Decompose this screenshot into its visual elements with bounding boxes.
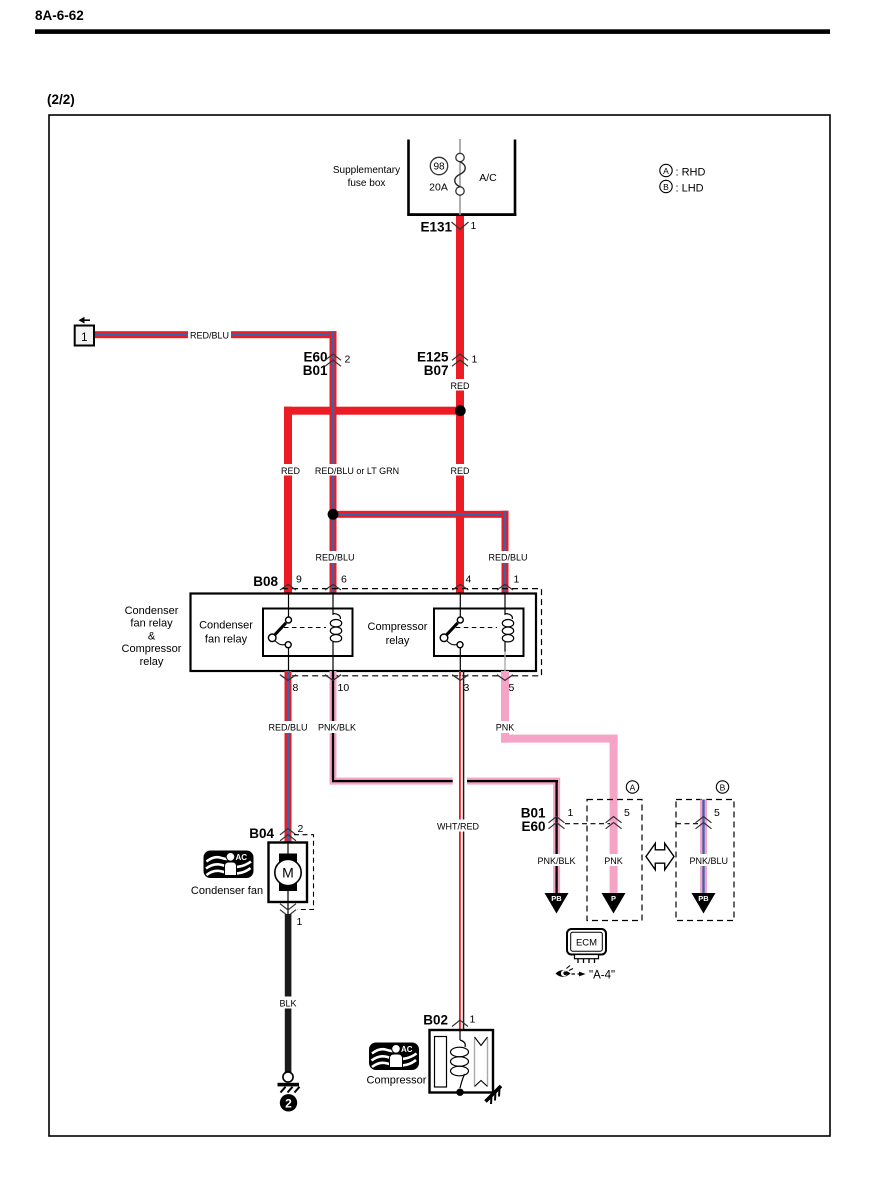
svg-text:B04: B04	[249, 826, 274, 841]
label Compressor	[367, 1075, 427, 1087]
label PNK/BLK (pin 10)	[316, 721, 359, 733]
B04 dashed outline	[294, 835, 314, 910]
connector B01/E60 pin 1	[521, 806, 574, 835]
label PNK/BLK (below B01/E60)	[535, 854, 578, 866]
condenser fan motor M	[269, 843, 308, 903]
svg-text:B: B	[720, 783, 726, 793]
label RED (pin 9 drop)	[278, 464, 300, 476]
junction node 2 (red/blu bus)	[328, 509, 339, 520]
svg-text:1: 1	[472, 354, 478, 366]
svg-text:RED/BLU: RED/BLU	[268, 723, 307, 733]
wire RED/BLU vertical E60 to junction 2	[330, 331, 337, 518]
wire PNK/BLK B08 pin 10 to B01/E60	[330, 671, 561, 893]
wire RED/BLU junction 2 to B08 pin 6	[330, 514, 337, 594]
wire RED/BLU B08 pin 8 to B04	[285, 671, 292, 843]
connector B04 pin 1	[280, 902, 303, 928]
svg-text:Condenser: Condenser	[199, 620, 253, 632]
fuse 98 20A A/C	[429, 153, 497, 195]
ground id circle 2	[280, 1094, 297, 1111]
label compressor relay (inner)	[368, 621, 428, 647]
connector B02 pin 1	[423, 1013, 475, 1028]
svg-text:6: 6	[341, 574, 347, 586]
supplementary fuse box	[333, 140, 517, 217]
svg-text:B08: B08	[253, 574, 278, 589]
svg-text:B02: B02	[423, 1013, 448, 1028]
wire RED/BLU horizontal from connector 1	[93, 331, 337, 338]
svg-text:relay: relay	[386, 635, 410, 647]
relay K2 switch	[440, 594, 497, 677]
svg-text:AC: AC	[401, 1045, 413, 1054]
relay K1 switch	[268, 594, 326, 677]
svg-text:M: M	[282, 865, 294, 881]
svg-text:RED/BLU: RED/BLU	[488, 553, 527, 563]
relay K2 coil	[502, 594, 513, 677]
wire RED junction to B08 pin 4	[456, 410, 464, 594]
ground arrow PB (box B)	[692, 893, 716, 914]
relay K1 coil	[330, 594, 341, 677]
svg-text:5: 5	[509, 682, 515, 694]
svg-text:98: 98	[433, 162, 445, 173]
svg-text:fan relay: fan relay	[205, 634, 248, 646]
svg-text:1: 1	[568, 807, 574, 819]
wire BLK to ground	[285, 914, 292, 1072]
B08 bottom pin chevrons 8,10,3,5	[280, 675, 515, 694]
svg-text:E60: E60	[521, 819, 545, 834]
legend RHD/LHD	[660, 164, 706, 194]
label BLK	[277, 997, 299, 1009]
svg-text:Compressor: Compressor	[368, 621, 428, 633]
svg-text:: RHD: : RHD	[676, 167, 706, 179]
AC icon (condenser fan)	[204, 851, 254, 879]
ground symbol G2	[278, 1072, 300, 1093]
connector E131 pin 1	[420, 220, 476, 235]
dashed link to box A	[565, 823, 610, 825]
relay K1 (condenser fan relay) box	[263, 609, 353, 657]
svg-text:5: 5	[714, 807, 720, 819]
compressor B02 box	[430, 1030, 494, 1093]
wire PNK B08 pin 5 to box A	[501, 671, 618, 893]
svg-text:E131: E131	[420, 220, 452, 235]
svg-text:RED: RED	[281, 466, 301, 476]
B08 dashed connector outline	[282, 589, 542, 676]
svg-text:1: 1	[471, 220, 477, 232]
svg-text:B07: B07	[424, 363, 449, 378]
svg-text:PNK/BLK: PNK/BLK	[537, 856, 575, 866]
equivalence double arrow	[646, 843, 674, 870]
see reference A-4	[556, 966, 616, 982]
wire RED/BLU horizontal bus to B08 pin 1	[333, 511, 509, 594]
svg-text:RED/BLU: RED/BLU	[190, 331, 229, 341]
svg-text:PNK: PNK	[604, 856, 623, 866]
svg-text:5: 5	[624, 807, 630, 819]
svg-text:PB: PB	[698, 894, 709, 903]
svg-text:1: 1	[297, 916, 303, 928]
relay K2 (compressor relay) box	[434, 609, 524, 657]
ground arrow P (box A)	[602, 893, 626, 914]
dashed link in box B	[676, 823, 700, 825]
svg-text:A: A	[663, 166, 669, 176]
svg-text:ECM: ECM	[576, 938, 597, 949]
label condenser fan relay (inner)	[199, 620, 253, 646]
svg-text:2: 2	[298, 823, 304, 835]
grey arrow connector 1 (page link)	[75, 317, 94, 346]
svg-text:8A-6-62: 8A-6-62	[35, 8, 84, 23]
label RED/BLU (pin 6 drop)	[314, 551, 357, 563]
svg-text:PNK/BLK: PNK/BLK	[318, 723, 356, 733]
svg-text:9: 9	[296, 574, 302, 586]
label RED (fuse drop)	[448, 379, 472, 391]
label RED/BLU (pin 8)	[267, 721, 310, 733]
svg-text:1: 1	[81, 332, 87, 344]
junction node (red bus)	[455, 405, 466, 416]
svg-text:P: P	[611, 894, 616, 903]
svg-text:PNK/BLU: PNK/BLU	[689, 856, 728, 866]
label condenser fan relay & compressor relay	[122, 605, 182, 668]
svg-text:4: 4	[466, 574, 472, 586]
svg-text:RED: RED	[450, 381, 470, 391]
svg-text:B01: B01	[303, 363, 328, 378]
svg-text:A: A	[630, 783, 636, 793]
label PNK/BLU (box B)	[687, 854, 731, 866]
wire RED from fuse to junction node	[456, 215, 464, 411]
connector E60/B01 pin 2	[303, 350, 351, 379]
svg-text:BLK: BLK	[279, 999, 296, 1009]
label RED/BLU (top horizontal)	[188, 329, 231, 342]
wire WHT/RED B08 pin 3 to B02	[453, 671, 467, 1030]
svg-text:A/C: A/C	[479, 172, 497, 184]
box B (LHD variant) dashed	[676, 781, 734, 921]
svg-text:Condenser fan: Condenser fan	[191, 885, 263, 897]
page number 8A-6-62	[35, 8, 830, 34]
svg-text:2: 2	[285, 1096, 292, 1110]
ECM module	[567, 929, 606, 963]
diagram frame	[49, 115, 830, 1136]
wire RED horizontal bus to pin 9	[284, 407, 464, 594]
svg-text:Compressor: Compressor	[122, 643, 182, 655]
svg-text:fuse box: fuse box	[348, 178, 386, 189]
B08 bottom chevron overlay	[280, 675, 513, 681]
svg-text:Supplementary: Supplementary	[333, 165, 400, 176]
svg-text:RED: RED	[450, 466, 470, 476]
label WHT/RED (pin 3)	[435, 820, 481, 832]
svg-text:Condenser: Condenser	[125, 605, 179, 617]
wire PNK/BLU (box B)	[700, 800, 707, 894]
connector E125/B07 pin 1	[417, 350, 478, 379]
connector B04 pin 2	[249, 823, 303, 841]
svg-text:PNK: PNK	[496, 723, 515, 733]
svg-text:1: 1	[470, 1014, 476, 1026]
B08 top pin chevrons 9,6,4,1	[280, 574, 520, 591]
svg-text:RED/BLU: RED/BLU	[315, 553, 354, 563]
label PNK (box A)	[602, 854, 626, 866]
AC icon (compressor)	[369, 1043, 419, 1071]
svg-text:RED/BLU or LT GRN: RED/BLU or LT GRN	[315, 466, 399, 476]
svg-text:fan relay: fan relay	[130, 618, 173, 630]
svg-text:2: 2	[345, 354, 351, 366]
ground arrow PB (left)	[545, 893, 569, 914]
svg-text:WHT/RED: WHT/RED	[437, 822, 479, 832]
connector B pin 5 chevrons	[696, 807, 721, 829]
label RED/BLU or LT GRN	[315, 464, 399, 476]
chassis ground (compressor)	[486, 1086, 502, 1104]
svg-text:8: 8	[293, 682, 299, 694]
svg-text:B: B	[663, 182, 669, 192]
svg-text:: LHD: : LHD	[676, 183, 704, 195]
svg-text:AC: AC	[236, 853, 248, 862]
compressor belt symbol	[475, 1037, 488, 1087]
fuse wire (gray)	[459, 139, 461, 215]
label RED/BLU (pin 1 drop)	[487, 551, 530, 563]
label PNK (pin 5)	[493, 721, 517, 733]
svg-text:PB: PB	[551, 894, 562, 903]
svg-text:relay: relay	[140, 656, 164, 668]
svg-text:(2/2): (2/2)	[47, 92, 75, 107]
box A (RHD variant) dashed	[587, 781, 642, 921]
svg-text:"A-4": "A-4"	[589, 970, 615, 982]
B08 connector label	[253, 574, 278, 589]
relay unit outer box	[191, 594, 537, 672]
svg-text:3: 3	[464, 682, 470, 694]
sheet label (2/2)	[47, 92, 75, 107]
svg-text:1: 1	[514, 574, 520, 586]
label Condenser fan	[191, 885, 263, 897]
svg-text:20A: 20A	[429, 182, 448, 194]
svg-text:&: &	[148, 630, 156, 642]
svg-text:Compressor: Compressor	[367, 1075, 427, 1087]
compressor clutch coil	[451, 1040, 469, 1096]
connector A pin 5 chevrons	[606, 807, 630, 829]
svg-text:10: 10	[338, 682, 350, 694]
label RED (pin 4 drop)	[448, 464, 472, 476]
